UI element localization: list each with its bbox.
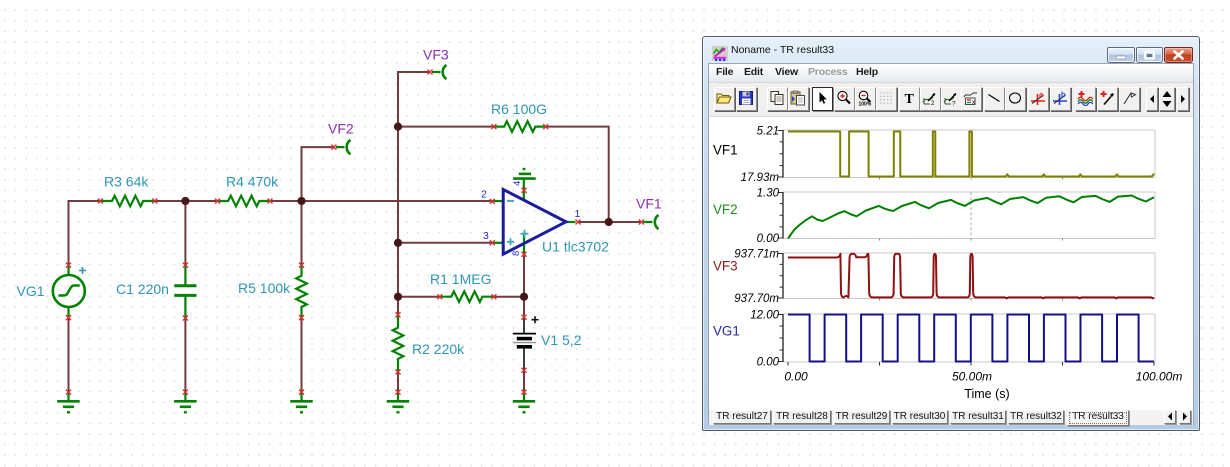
svg-text:a: a <box>1039 90 1044 99</box>
R2 pin 2 mark <box>396 369 401 374</box>
R1 pin 1 mark <box>437 294 442 299</box>
wire R5 bottom to ground <box>301 318 303 392</box>
label C1 220n <box>116 281 169 297</box>
op-amp U1 minus mark <box>507 200 514 202</box>
VG1 waveform <box>788 315 1154 362</box>
svg-text:T: T <box>905 92 915 106</box>
svg-text:50.00m: 50.00m <box>952 370 992 384</box>
ground pin mark VG1 <box>66 390 71 395</box>
op-amp U1 pin 4 label <box>512 181 523 186</box>
svg-text:R1 1MEG: R1 1MEG <box>430 271 491 287</box>
svg-text:R2 220k: R2 220k <box>412 341 465 357</box>
probe VF3 <box>432 65 447 79</box>
resistor R4 <box>218 196 271 207</box>
ground pin mark R2 <box>396 390 401 395</box>
R6 pin 2 mark <box>543 124 548 129</box>
svg-text:3: 3 <box>483 230 489 242</box>
label VG1 <box>17 283 45 299</box>
wire C1 bottom to ground <box>184 318 186 392</box>
ground for C1 <box>174 392 196 412</box>
V1 plus sign <box>532 316 539 323</box>
VF1 panel frame <box>778 130 1156 180</box>
label V1 5,2 <box>541 332 582 348</box>
svg-text:R6 100G: R6 100G <box>491 101 547 117</box>
wire R5 top lead <box>301 201 303 265</box>
label VF1 <box>636 196 662 212</box>
capacitor C1 <box>174 265 196 318</box>
wire VG1 to R3 <box>69 201 101 202</box>
svg-text:8: 8 <box>511 251 522 256</box>
ground pin mark V1 <box>522 390 527 395</box>
op-amp U1 triangle <box>503 190 566 255</box>
op-amp U1 pin 1 number <box>575 208 581 220</box>
U1 pin 2 mark <box>490 199 495 204</box>
op-amp U1 pin 3 stub <box>494 242 503 244</box>
VF2 waveform <box>788 196 1154 239</box>
svg-text:VF1: VF1 <box>713 143 738 158</box>
V1 pin - mark <box>522 368 527 373</box>
op-amp U1 plus mark input <box>507 238 514 245</box>
svg-text:0.00: 0.00 <box>784 370 808 384</box>
resistor R3 <box>100 196 154 207</box>
wire node A to R4 <box>185 200 217 202</box>
wire node C to op-amp pin 3 <box>398 242 494 244</box>
resistor R6 <box>494 121 546 132</box>
op-amp U1 pin 3 number <box>483 230 489 242</box>
svg-text:Time (s): Time (s) <box>964 387 1009 401</box>
R6 pin 1 mark <box>491 124 496 129</box>
VF3 waveform <box>788 254 1154 299</box>
svg-text:VF1: VF1 <box>636 196 662 212</box>
R3 pin 2 mark <box>152 199 157 204</box>
V1 pin + mark <box>522 315 527 320</box>
wire VG1 bottom to ground <box>68 318 70 392</box>
svg-text:1: 1 <box>575 208 581 220</box>
svg-text:VF3: VF3 <box>713 259 738 274</box>
svg-text:VF3: VF3 <box>423 47 449 63</box>
svg-text:0.00: 0.00 <box>757 233 780 245</box>
ground for R2 <box>387 392 409 412</box>
U1 pin 3 mark <box>490 240 495 245</box>
battery V1 <box>513 317 536 370</box>
junction node B <box>297 197 305 205</box>
wire R6 to output node <box>546 127 609 222</box>
U1 pin 4 mark <box>522 188 527 193</box>
junction node C plus-input <box>394 239 402 247</box>
junction node C R1-R2 <box>394 293 402 301</box>
wire node C to R6 <box>398 126 494 128</box>
svg-text:R3 64k: R3 64k <box>104 174 149 190</box>
VF1 axis labels <box>741 126 780 185</box>
wire C1 top lead <box>184 201 186 265</box>
label R5 100k <box>238 280 291 296</box>
C1 pin 1 mark <box>183 263 188 268</box>
VF3 axis labels <box>734 249 779 306</box>
op-amp U1 supply bar <box>513 169 536 201</box>
VG1 pin + mark <box>66 263 71 268</box>
R5 pin 2 mark <box>299 315 304 320</box>
svg-text:b: b <box>1061 90 1066 99</box>
VF3 panel frame <box>778 253 1156 301</box>
VG1 pin - mark <box>66 315 71 320</box>
wire node C column <box>397 127 399 297</box>
VF2 probe pin mark <box>331 145 336 150</box>
R5 pin 1 mark <box>299 263 304 268</box>
svg-text:0.00: 0.00 <box>757 357 780 369</box>
junction output node <box>605 218 613 226</box>
label VF3 <box>423 47 449 63</box>
wire R2 top lead <box>397 297 399 315</box>
VG1 plus sign <box>79 267 86 274</box>
op-amp U1 pin 8 label <box>511 251 522 256</box>
wire R4 to node B <box>270 200 302 202</box>
svg-text:1.30: 1.30 <box>757 188 780 200</box>
svg-text:C1 220n: C1 220n <box>116 281 169 297</box>
TR result window <box>702 36 1200 431</box>
R3 pin 1 mark <box>98 199 103 204</box>
wire VG1 top lead <box>68 201 70 265</box>
svg-text:100%: 100% <box>859 102 872 107</box>
svg-text:17.93m: 17.93m <box>741 172 780 184</box>
svg-text:2: 2 <box>481 189 487 201</box>
wire VF3 branch <box>398 72 431 127</box>
svg-text:VG1: VG1 <box>17 283 45 299</box>
wire R1 to node D <box>494 296 524 298</box>
VF2 cursor dashed line <box>970 193 972 239</box>
svg-text:5.21: 5.21 <box>757 126 779 138</box>
C1 pin 2 mark <box>183 316 188 321</box>
op-amp U1 pin 1 stub <box>565 221 576 223</box>
ground for V1 <box>513 392 535 412</box>
U1 pin 1 mark <box>576 220 581 225</box>
VF3 name label <box>713 259 738 274</box>
svg-text:?: ? <box>952 101 956 107</box>
op-amp U1 pin 2 stub <box>494 200 503 202</box>
VG1 name label <box>713 324 740 339</box>
op-amp U1 pin 2 number <box>481 189 487 201</box>
junction node A <box>181 197 189 205</box>
VF1 waveform <box>788 132 1154 177</box>
VF2 name label <box>713 202 738 217</box>
svg-text:12.00: 12.00 <box>750 310 779 322</box>
R1 pin 2 mark <box>491 294 496 299</box>
svg-text:4: 4 <box>512 181 523 186</box>
U1 pin 8 mark <box>522 252 527 257</box>
wire R2 bottom to ground <box>397 372 399 392</box>
time axis labels <box>784 370 1182 384</box>
svg-text:x: x <box>972 100 975 106</box>
junction node C top <box>394 123 402 131</box>
R4 pin 1 mark <box>215 199 220 204</box>
svg-text:937.70m: 937.70m <box>734 293 779 305</box>
svg-text:R4 470k: R4 470k <box>226 174 279 190</box>
label R4 470k <box>226 174 279 190</box>
svg-text:R5 100k: R5 100k <box>238 280 291 296</box>
junction node D <box>520 293 528 301</box>
svg-text:U1 tlc3702: U1 tlc3702 <box>542 239 609 255</box>
label R6 100G <box>491 101 547 117</box>
wire R3 to node A <box>155 200 186 202</box>
VG1 axis labels <box>750 310 779 369</box>
svg-text:VF2: VF2 <box>713 202 738 217</box>
time axis title <box>964 387 1009 401</box>
ground for R5 <box>290 392 312 412</box>
label VF2 <box>328 121 354 137</box>
wire node C to R1 <box>398 296 440 298</box>
probe VF1 <box>643 215 659 229</box>
svg-text:100.00m: 100.00m <box>1136 370 1183 384</box>
label R1 1MEG <box>430 271 491 287</box>
resistor R5 <box>296 265 307 318</box>
VF3 probe pin mark <box>428 70 433 75</box>
VF1 probe pin mark <box>639 220 644 225</box>
R2 pin 1 mark <box>396 312 401 317</box>
svg-text:VF2: VF2 <box>328 121 354 137</box>
resistor R2 <box>393 315 404 372</box>
VF2 axis labels <box>757 188 780 246</box>
op-amp U1 plus mark supply <box>521 230 529 238</box>
svg-text:2: 2 <box>931 101 935 106</box>
resistor R1 <box>440 291 494 302</box>
wire node B to op-amp pin 2 <box>302 200 495 202</box>
VG1 panel frame <box>778 314 1156 366</box>
label R2 220k <box>412 341 465 357</box>
wire op-amp output to VF1 <box>578 221 642 223</box>
voltage source VG1 <box>53 265 85 318</box>
ground pin mark C1 <box>183 390 188 395</box>
op-amp U1 pin 8 lead <box>523 234 525 254</box>
R4 pin 2 mark <box>268 199 273 204</box>
ground for VG1 <box>57 392 79 412</box>
VF1 name label <box>713 143 738 158</box>
probe VF2 <box>336 140 351 154</box>
svg-text:V1 5,2: V1 5,2 <box>541 332 582 348</box>
wire op-amp pin 8 to node D <box>523 253 525 316</box>
wire V1 bottom to ground <box>523 370 525 392</box>
label R3 64k <box>104 174 149 190</box>
label U1 tlc3702 <box>542 239 609 255</box>
wire VF2 branch <box>302 147 336 201</box>
VF2 panel frame <box>778 192 1156 241</box>
svg-text:VG1: VG1 <box>713 324 740 339</box>
svg-text:937.71m: 937.71m <box>734 249 779 261</box>
ground pin mark R5 <box>299 390 304 395</box>
